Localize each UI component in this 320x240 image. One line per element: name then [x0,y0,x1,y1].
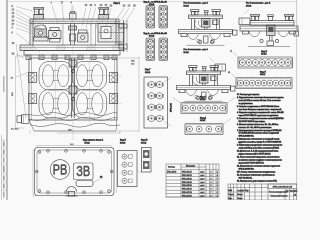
svg-text:не допускаются.: не допускаются. [239,103,254,105]
svg-text:рис 1: рис 1 [201,185,205,187]
svg-text:маслом К-17 ГОСТ 10877-76.: маслом К-17 ГОСТ 10877-76. [239,163,265,165]
svg-text:8: 8 [211,195,212,197]
svg-text:М 1:2: М 1:2 [120,142,126,144]
left margin column [1,76,7,198]
svg-text:ЭРБ-1-04 СБ: ЭРБ-1-04 СБ [182,182,192,184]
svg-text:2: 2 [211,175,212,177]
title block [228,184,298,200]
partition walls [63,24,96,46]
svg-text:жирить бензином БР-1 ГОСТ 443-: жирить бензином БР-1 ГОСТ 443-76. [239,154,272,156]
svg-text:ЭРБ-1-08 СБ: ЭРБ-1-08 СБ [182,195,192,197]
ZV emblem [74,163,94,180]
svg-text:Вид А - см ЭРБ-1-05,-09: Вид А - см ЭРБ-1-05,-09 [144,0,168,3]
svg-text:рис 3: рис 3 [201,178,205,180]
svg-text:ЭРБ-1-06 СБ: ЭРБ-1-06 СБ [182,189,192,191]
dim line bottom [30,130,120,135]
top stud left pair [34,7,44,19]
svg-text:рис 1: рис 1 [201,172,205,174]
base plate band [20,45,124,55]
svg-text:ударным способом, шрифт 5 по Г: ударным способом, шрифт 5 по ГОСТ 26.008… [239,141,282,144]
svg-text:Вх. М20: Вх. М20 [11,129,19,131]
svg-text:6: 6 [211,189,212,191]
svg-text:ЗВ: ЗВ [76,163,90,180]
svg-text:Блок распределения: Блок распределения [269,192,287,194]
svg-text:рис 3: рис 3 [201,192,205,194]
dim line left [11,56,30,131]
parts table [166,164,219,197]
svg-text:Вид Е: Вид Е [120,140,126,142]
top stud right pair [99,7,109,19]
svg-text:10. Детали поз. 5, 8, 21 перед: 10. Детали поз. 5, 8, 21 перед установко… [237,150,279,153]
chambers [39,62,73,91]
svg-text:М 1:2: М 1:2 [85,142,91,144]
svg-text:Вид В: Вид В [261,51,267,53]
svg-text:ЭРБ-1-05-09: ЭРБ-1-05-09 [167,172,176,174]
svg-text:3. Сварные соединения по ГОСТ: 3. Сварные соединения по ГОСТ 5264-80. К… [237,106,279,108]
svg-text:5: 5 [211,185,212,187]
svg-text:Подп: Подп [245,190,249,192]
svg-text:ЭРБ-1-03 СБ: ЭРБ-1-03 СБ [182,178,192,180]
lower body outer [29,58,117,120]
svg-text:М 1:2: М 1:2 [184,5,190,7]
right bracket [119,20,127,52]
svg-text:гаек поз. 14 - 40...45 Н·м рав: гаек поз. 14 - 40...45 Н·м равномерно. [239,127,273,129]
svg-text:Вид Ж: Вид Ж [141,140,147,142]
svg-text:ТУ 16-505.437-82 согласно схем: ТУ 16-505.437-82 согласно схеме соединен… [239,132,279,135]
svg-text:ЭРБ-1-03: ЭРБ-1-03 [171,102,173,112]
svg-text:1: 1 [211,172,212,174]
svg-text:2. Гидравлические испытания бл: 2. Гидравлические испытания блока провес… [237,97,284,99]
main assembly sectional view [11,2,141,141]
svg-text:М 1:2: М 1:2 [200,99,206,101]
dim line right [117,57,140,131]
center shaft [69,58,77,118]
left wall [30,24,33,46]
valve stack left2 [49,28,62,43]
svg-text:7: 7 [217,189,218,191]
svg-text:нием 1,5 МПа в течение 10 мин.: нием 1,5 МПа в течение 10 мин. Течь и по… [239,100,281,102]
leader balloons left [12,5,53,118]
svg-text:Вид нижнего блока 1: Вид нижнего блока 1 [83,140,104,142]
svg-text:ОСТ 26-291-94.: ОСТ 26-291-94. [239,177,253,179]
svg-text:5. Резьбовые соединения смазат: 5. Резьбовые соединения смазать смазкой … [237,117,284,120]
svg-text:Обознач.: Обознач. [168,167,176,169]
svg-text:Вид А - см ЭРБ-1-06,-08: Вид А - см ЭРБ-1-06,-08 [144,32,168,35]
svg-text:Иванов: Иванов [238,194,243,196]
svg-text:7. Электромонтаж выполнить про: 7. Электромонтаж выполнить проводом МГШВ… [237,130,281,132]
valve stack far left [34,25,49,41]
valve small mid-right [78,30,89,42]
svg-text:М 1:2: М 1:2 [200,120,206,122]
svg-text:Исполнение: Исполнение [186,166,195,168]
svg-text:М 1:2: М 1:2 [145,72,151,74]
svg-text:4: 4 [217,195,218,197]
svg-text:Разраб: Разраб [229,194,234,196]
svg-text:М 1:2: М 1:2 [260,74,266,76]
left pipe fitting [17,115,29,124]
svg-text:ЭРБ-1.00.000-01 СБ: ЭРБ-1.00.000-01 СБ [273,187,293,189]
top beam plate [30,19,119,24]
svg-text:серая ГОСТ 6465-76 в два слоя: серая ГОСТ 6465-76 в два слоя по грунтов… [239,115,279,117]
leader balloons top [51,2,137,31]
svg-text:15. Маркировать: дату выпуска: 15. Маркировать: дату выпуска и штамп ОТ… [237,180,277,182]
svg-text:рис 4: рис 4 [201,195,205,197]
svg-text:М 1:2: М 1:2 [149,36,155,38]
svg-text:ЭРБ-1.00.000 Э4.: ЭРБ-1.00.000 Э4. [239,136,255,138]
svg-text:4: 4 [217,175,218,177]
svg-text:Вид Д: Вид Д [200,118,206,120]
svg-text:ЭРБ-1-07 СБ: ЭРБ-1-07 СБ [182,192,192,194]
svg-text:Рис 4 исполнение - рис 1: Рис 4 исполнение - рис 1 [184,49,209,51]
svg-text:Лит: Лит [286,190,289,192]
svg-text:М 1:2: М 1:2 [246,5,252,7]
svg-text:просушить сжатым воздухом и за: просушить сжатым воздухом и законсервиро… [239,160,282,162]
svg-text:6. Момент затяжки болтов поз.: 6. Момент затяжки болтов поз. 12 - 25...… [237,124,279,126]
svg-text:Петров: Петров [238,198,243,200]
svg-text:Рис 2 исполнение - рис 1: Рис 2 исполнение - рис 1 [184,3,209,5]
slot plate [76,181,93,187]
svg-text:Рис 1: Рис 1 [114,2,121,5]
svg-text:М 1:2: М 1:2 [141,142,147,144]
bottom wave & flange [29,113,120,132]
RV emblem [50,160,70,180]
svg-text:1: 1 [217,192,218,194]
svg-text:РВ: РВ [53,161,68,178]
valve block right [98,24,124,43]
bolts under base [26,55,117,60]
svg-text:1: 1 [217,182,218,184]
svg-text:Рис 3 исполнение - рис 1: Рис 3 исполнение - рис 1 [246,3,271,5]
svg-text:шва 4 мм. Контроль сварных шво: шва 4 мм. Контроль сварных швов - визуал… [239,108,283,111]
svg-text:отверстий Н14, валов h14, оста: отверстий Н14, валов h14, остальных ±IT1… [239,147,280,150]
technical requirements text block [237,94,284,182]
svg-text:4: 4 [211,182,212,184]
svg-text:рис 2: рис 2 [201,175,205,177]
plate dims [33,144,117,196]
svg-text:9. Неуказанные предельные откл: 9. Неуказанные предельные отклонения раз… [237,145,283,147]
bottom fitting [67,187,77,192]
svg-text:ЭРБ-1-01 СБ: ЭРБ-1-01 СБ [182,172,192,174]
svg-text:13*. Размер обеспечивается инс: 13*. Размер обеспечивается инструментом. [237,171,276,173]
svg-text:12. Комплектность поставки сог: 12. Комплектность поставки согласно ведо… [237,166,280,168]
svg-text:М 1:2: М 1:2 [261,54,267,56]
svg-text:8. Маркировать обозначение и з: 8. Маркировать обозначение и заводской н… [237,138,279,141]
axis centerlines [25,6,122,141]
center stem [69,24,77,46]
top center stud [70,11,77,19]
svg-text:Сборочный чертеж: Сборочный чертеж [271,194,288,197]
svg-text:1*. Размеры для справок.: 1*. Размеры для справок. [237,94,260,96]
svg-text:ЭРБ-1-02 СБ: ЭРБ-1-02 СБ [182,175,192,177]
svg-text:1: 1 [217,172,218,174]
svg-text:1:1: 1:1 [294,194,296,196]
svg-text:3: 3 [211,178,212,180]
side bolts [29,73,118,104]
svg-text:ЭРБ-1.00.000 ВЭ.: ЭРБ-1.00.000 ВЭ. [239,169,255,171]
svg-text:Пров.: Пров. [229,198,234,200]
svg-text:11. После испытаний внутренние: 11. После испытаний внутренние полости б… [237,156,280,159]
svg-text:14. Остальные технические треб: 14. Остальные технические требования по [237,174,275,176]
svg-text:Л: Л [231,190,232,192]
svg-text:7: 7 [211,192,212,194]
svg-text:Вид Б: Вид Б [260,72,266,74]
svg-text:рис 4: рис 4 [201,182,205,184]
svg-text:Вид Г: Вид Г [145,69,151,71]
svg-text:4. Покрытие наружных поверхнос: 4. Покрытие наружных поверхностей - эмал… [237,111,284,114]
svg-text:Вид Б: Вид Б [200,97,206,99]
right wall [116,24,119,46]
svg-text:7: 7 [217,178,218,180]
svg-text:4: 4 [217,185,218,187]
svg-text:ЭРБ-1-05 СБ: ЭРБ-1-05 СБ [182,185,192,187]
svg-text:рис 2: рис 2 [201,189,205,191]
svg-text:201 ГОСТ 6267-74 при сборке.: 201 ГОСТ 6267-74 при сборке. [239,121,266,123]
sheet frame [1,0,297,200]
svg-text:М 1:2: М 1:2 [184,52,190,54]
